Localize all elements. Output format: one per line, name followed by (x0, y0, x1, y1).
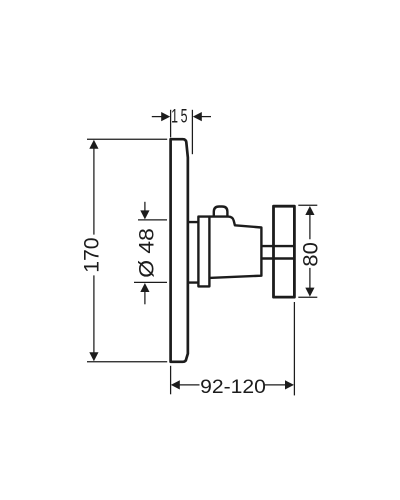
dim 170: bottom arrow (89, 352, 98, 361)
dim O48: bottom tick line (134, 281, 167, 283)
svg-text:15: 15 (171, 107, 190, 128)
svg-text:170: 170 (80, 237, 104, 272)
dim 15: right leader with arrow (201, 116, 211, 118)
stop ring sleeve (198, 217, 209, 287)
svg-text:80: 80 (298, 242, 322, 267)
dim 170: top arrow (89, 140, 98, 149)
temperature stop knob (214, 207, 228, 217)
svg-text:92-120: 92-120 (200, 376, 266, 398)
dim O48: top leader with arrow (144, 202, 146, 211)
dim 80: bottom arrow (305, 288, 314, 297)
dim 80: top extension line (298, 204, 317, 206)
dim 15: left leader with arrow (152, 116, 162, 118)
wall flange step (188, 222, 199, 283)
dim 15: right extension line (191, 110, 193, 154)
dim 170: top extension line (87, 138, 167, 140)
escutcheon plate (side profile) (171, 139, 188, 362)
dim O48: top tick line (138, 219, 167, 221)
handle stem (261, 246, 294, 258)
dim 92-120: dimension line (179, 384, 285, 386)
dim 170: dimension line (93, 147, 95, 354)
dim 80: top arrow (305, 206, 314, 215)
valve body (209, 217, 261, 278)
dim 92-120: right arrow (285, 380, 294, 389)
dim 170: bottom extension line (87, 361, 167, 363)
svg-text:Ø 48: Ø 48 (135, 228, 159, 278)
dim 92-120: left arrow (171, 380, 180, 389)
dim 80: bottom extension line (298, 296, 317, 298)
cross handle bar (274, 206, 295, 297)
dim 15: left extension line (170, 110, 172, 138)
dim 80: dimension line (309, 213, 311, 290)
dim 92-120: left extension line (170, 366, 172, 395)
dim 92-120: right extension line (293, 302, 295, 395)
dim O48: bottom leader with arrow (144, 292, 146, 304)
